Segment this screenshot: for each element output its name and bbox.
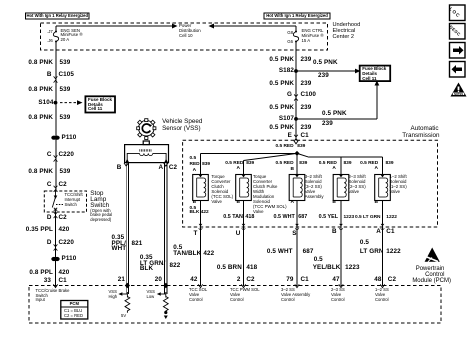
svg-text:NOTES: NOTES	[454, 92, 463, 96]
